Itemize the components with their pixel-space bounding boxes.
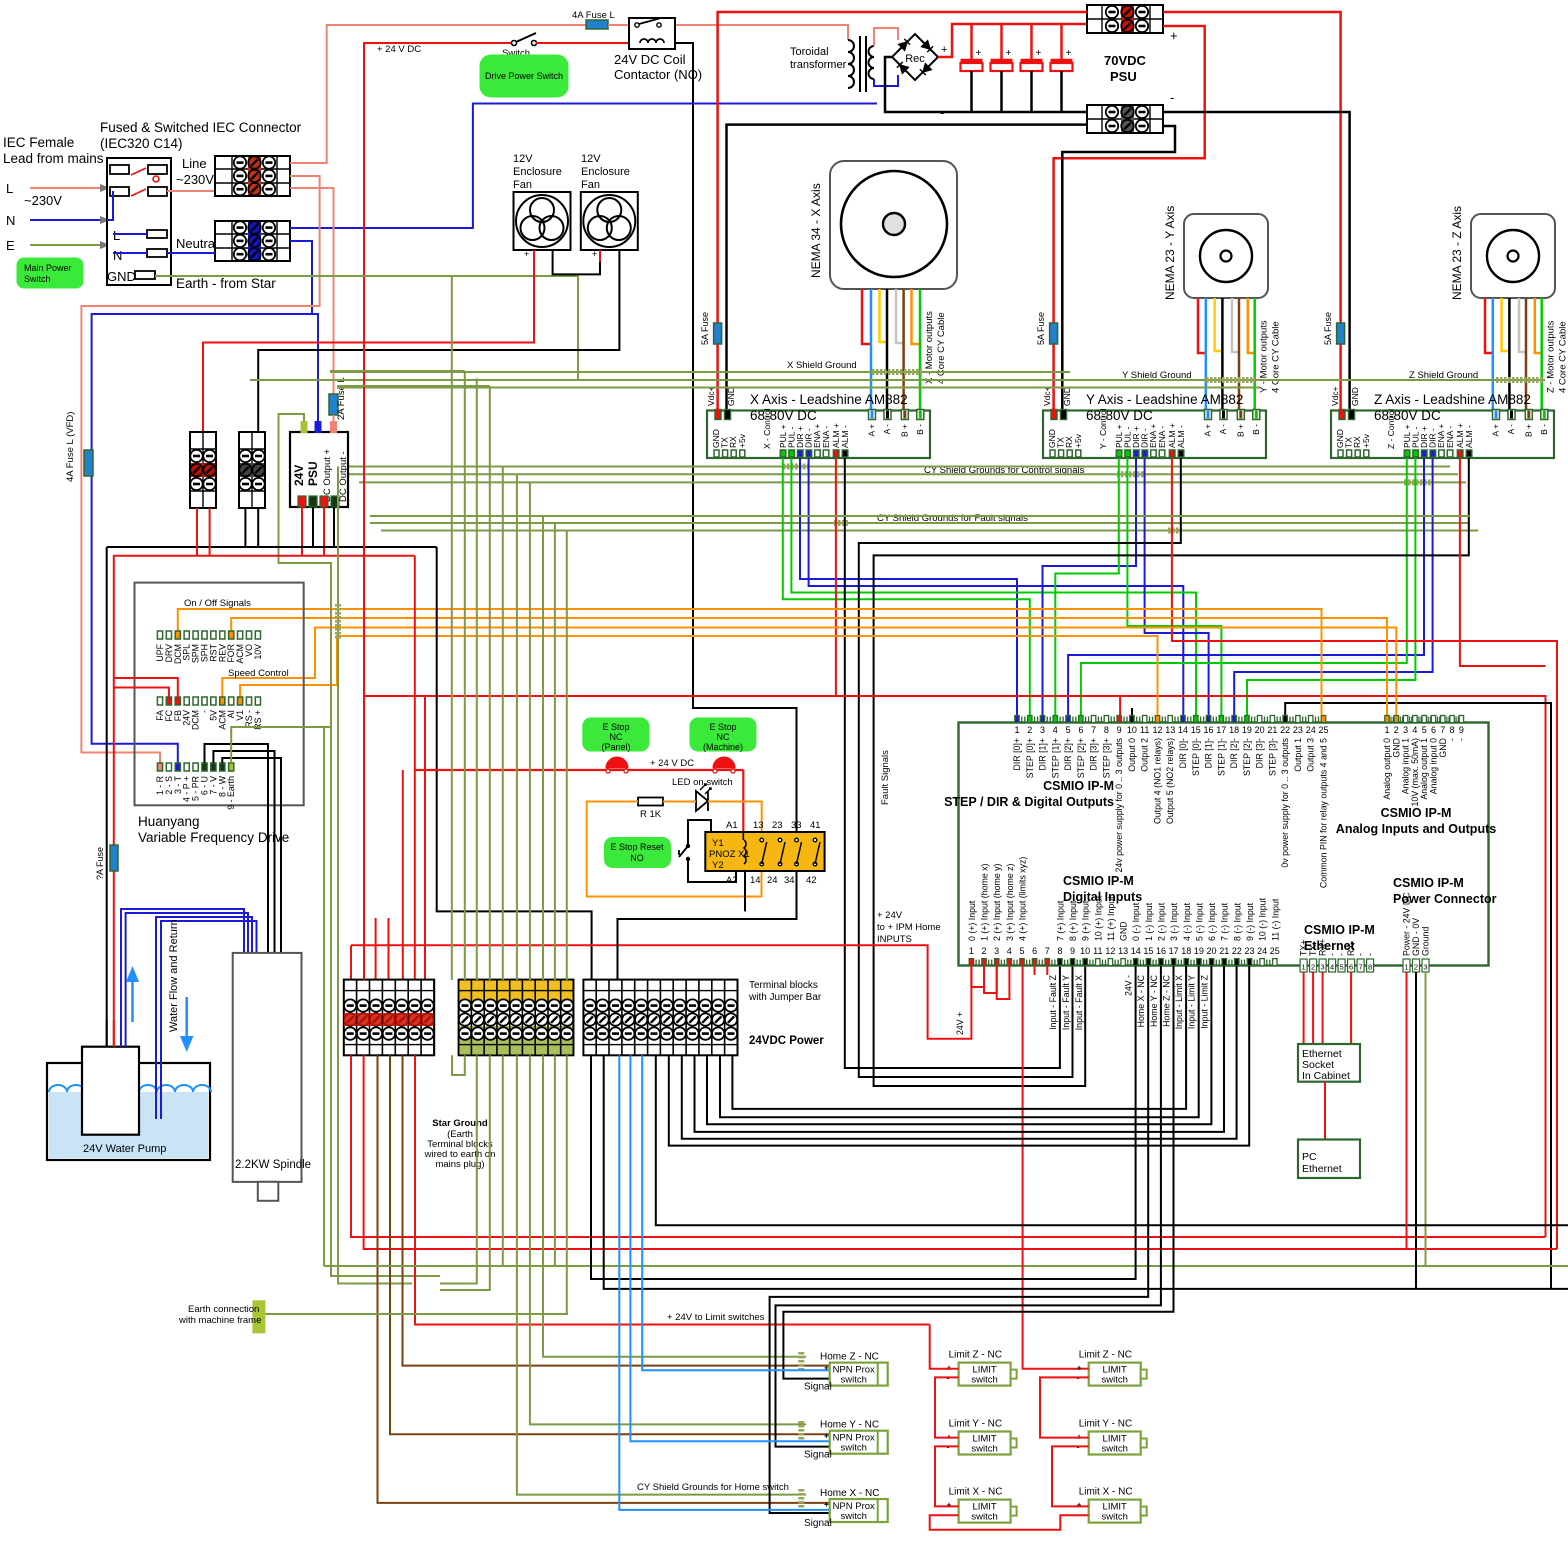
svg-text:Limit Z - NC: Limit Z - NC: [1079, 1350, 1132, 1361]
svg-text:GND: GND: [1350, 387, 1360, 406]
wire fan red drop into block1: [202, 431, 204, 433]
limit switch Z: [1089, 1363, 1147, 1386]
fuse 5A X: [716, 322, 719, 410]
wire Y ALM+ red: [1172, 458, 1557, 1249]
svg-text:~230V: ~230V: [24, 193, 62, 208]
svg-text:Output 1: Output 1: [1293, 738, 1303, 772]
wire olive cy control 3: [359, 481, 1466, 483]
CSMIO ethernet pins: [1300, 959, 1307, 972]
svg-text:+ 24V: + 24V: [877, 910, 903, 921]
svg-text:12: 12: [1152, 725, 1162, 735]
svg-text:22: 22: [1280, 725, 1290, 735]
svg-text:Y1: Y1: [712, 838, 724, 849]
wire pin15 homeX signal: [770, 966, 1149, 1513]
svg-text:23: 23: [1293, 725, 1303, 735]
svg-text:B -: B -: [915, 424, 925, 435]
home switch X NPN prox: [830, 1499, 888, 1522]
svg-text:Limit X - NC: Limit X - NC: [949, 1487, 1003, 1498]
svg-text:24V +: 24V +: [955, 1012, 965, 1035]
VFD row2 pins: [157, 697, 162, 705]
svg-text:5 (-) Input: 5 (-) Input: [1194, 902, 1204, 941]
svg-text:21: 21: [1219, 946, 1229, 956]
svg-text:6: 6: [1032, 946, 1037, 956]
wire olive cy control 1: [337, 466, 1450, 468]
svg-text:2A Fuse L: 2A Fuse L: [336, 377, 347, 420]
svg-text:1 (-) Input: 1 (-) Input: [1144, 902, 1154, 941]
svg-text:Z - Control: Z - Control: [1386, 409, 1396, 449]
drive Y axis Leadshine AM882: [1043, 410, 1266, 459]
svg-text:Speed Control: Speed Control: [228, 668, 289, 679]
svg-text:-: -: [1365, 953, 1375, 956]
svg-text:24v power supply for 0 .. 3 ou: 24v power supply for 0 .. 3 outputs: [1114, 737, 1124, 872]
svg-text:22: 22: [1232, 946, 1242, 956]
wire orange V1 to pin12: [240, 636, 1157, 715]
resistor R 1K: [638, 798, 663, 806]
wire motor brown B+: [1525, 298, 1528, 410]
svg-text:ENA -: ENA -: [1445, 426, 1455, 448]
svg-text:10: 10: [1080, 946, 1090, 956]
svg-text:Water Flow and Return: Water Flow and Return: [168, 919, 180, 1032]
braid home Z: [798, 1352, 804, 1372]
wire motor blue A+: [1205, 298, 1208, 410]
svg-text:34: 34: [784, 875, 795, 886]
wire olive cy control 2: [348, 473, 1458, 475]
wire minus row2 to Y gnd: [1062, 126, 1175, 410]
svg-text:11 (+) Input: 11 (+) Input: [1106, 896, 1116, 941]
svg-text:4: 4: [1053, 725, 1058, 735]
braid X shield: [872, 369, 922, 375]
svg-text:2: 2: [1027, 725, 1032, 735]
svg-text:24VDC Power: 24VDC Power: [749, 1035, 824, 1047]
wire olive stub star: [554, 1055, 556, 1266]
svg-text:CSMIO IP-M: CSMIO IP-M: [1304, 923, 1375, 937]
wire transformer secondary top to rec: [874, 28, 898, 46]
svg-text:-: -: [1337, 953, 1347, 956]
wire orange ACM to analog2: [222, 628, 1396, 716]
wire olive to homeX: [517, 1055, 806, 1494]
psu top stubs: [301, 421, 308, 433]
wire orange FOR to analog1: [231, 618, 1387, 715]
svg-text:STEP [2]-: STEP [2]-: [1242, 738, 1252, 776]
terminal block left pair: [190, 432, 216, 508]
svg-text:2 (+) Input (home y): 2 (+) Input (home y): [992, 863, 1002, 941]
capacitor C3: [1030, 24, 1033, 59]
svg-text:25: 25: [1318, 725, 1328, 735]
svg-text:4A Fuse L (VFD): 4A Fuse L (VFD): [65, 412, 76, 482]
terminal block right pair: [239, 432, 265, 508]
wire motor yellow A-: [1502, 298, 1510, 351]
svg-text:4: 4: [1007, 946, 1012, 956]
svg-text:12V: 12V: [513, 153, 533, 165]
svg-text:STEP [1]-: STEP [1]-: [1216, 738, 1226, 776]
svg-text:NEMA 23 - Z Axis: NEMA 23 - Z Axis: [1450, 206, 1464, 300]
svg-text:3: 3: [1423, 963, 1427, 972]
svg-text:2: 2: [982, 946, 987, 956]
svg-text:9 (+) Input: 9 (+) Input: [1081, 900, 1091, 941]
wire psu red rail: [114, 555, 415, 557]
braid vfd signals: [335, 604, 341, 640]
svg-text:8: 8: [1057, 946, 1062, 956]
svg-text:DIR [0]-: DIR [0]-: [1178, 738, 1188, 768]
svg-text:E: E: [6, 238, 15, 253]
svg-text:15: 15: [1191, 725, 1201, 735]
svg-text:+5v: +5v: [1361, 433, 1371, 448]
svg-text:3: 3: [1040, 725, 1045, 735]
wire pin20: [707, 966, 1211, 1124]
wire 24V estop rail: [415, 769, 744, 771]
estop button panel: [606, 757, 628, 768]
svg-text:INPUTS: INPUTS: [877, 934, 912, 945]
svg-text:33: 33: [791, 820, 802, 831]
wire block3 blues to home: [619, 1055, 829, 1510]
svg-text:4 Core CY Cable: 4 Core CY Cable: [936, 312, 947, 384]
wire VFD earth olive: [231, 727, 331, 763]
wire orange led loop: [587, 802, 762, 897]
svg-text:1: 1: [1014, 725, 1019, 735]
drive Z axis Leadshine AM882: [1331, 410, 1554, 459]
svg-text:L: L: [113, 228, 120, 243]
spindle 2.2KW: [233, 953, 302, 1182]
wire olive to power pin3: [1425, 972, 1427, 1266]
svg-text:8 (+) Input: 8 (+) Input: [1068, 900, 1078, 941]
svg-text:6: 6: [1078, 725, 1083, 735]
wire motor red A+: [1485, 298, 1493, 353]
svg-text:ALM -: ALM -: [1464, 425, 1474, 448]
wire block1 brown Y: [390, 1055, 829, 1434]
svg-text:DIR [1]-: DIR [1]-: [1204, 738, 1214, 768]
svg-text:8: 8: [1450, 725, 1455, 735]
svg-text:Z Axis - Leadshine AM882: Z Axis - Leadshine AM882: [1374, 392, 1531, 407]
svg-text:68-80V DC: 68-80V DC: [1374, 408, 1441, 423]
svg-text:Main Power: Main Power: [24, 263, 72, 273]
drive power switch label: [480, 55, 568, 97]
svg-text:+: +: [1170, 28, 1178, 43]
CSMIO input pin row: [969, 959, 973, 966]
wire limit col2 daisy Z-Y: [1040, 1377, 1089, 1437]
coil symbol: [744, 840, 746, 864]
svg-text:N: N: [6, 213, 15, 228]
braid Z shield: [1496, 377, 1543, 383]
svg-text:Contactor (NO): Contactor (NO): [614, 67, 702, 82]
svg-text:11 (-) Input: 11 (-) Input: [1270, 898, 1280, 941]
svg-text:0 (+) Input: 0 (+) Input: [967, 900, 977, 941]
svg-text:Home Z - NC: Home Z - NC: [1162, 974, 1172, 1026]
svg-text:~230V: ~230V: [176, 172, 214, 187]
svg-text:2 (-) Input: 2 (-) Input: [1157, 902, 1167, 941]
svg-text:TX+: TX+: [1299, 940, 1309, 956]
capacitor C1: [970, 24, 973, 59]
svg-text:10V: 10V: [253, 644, 263, 660]
svg-text:+: +: [592, 249, 597, 259]
svg-text:Power - 24V DC: Power - 24V DC: [1402, 892, 1412, 956]
svg-text:4 (-) Input: 4 (-) Input: [1182, 902, 1192, 941]
svg-text:PSU: PSU: [306, 461, 320, 486]
svg-text:13: 13: [1118, 946, 1128, 956]
wire earth olive down: [323, 727, 325, 1266]
wire rec plus bus red: [938, 24, 1087, 57]
svg-text:Fan: Fan: [581, 179, 600, 191]
svg-text:11: 11: [1093, 946, 1102, 956]
svg-text:Input - Fault X: Input - Fault X: [1074, 975, 1084, 1030]
svg-text:DIR [1]+: DIR [1]+: [1038, 738, 1048, 771]
wire Y DIR- to pin16: [1145, 458, 1209, 715]
svg-text:A -: A -: [882, 424, 892, 435]
svg-text:A +: A +: [1203, 424, 1213, 437]
svg-text:N: N: [113, 248, 122, 263]
svg-text:A -: A -: [1218, 424, 1228, 435]
wire 2A fuse to psu: [333, 415, 335, 432]
wire Z ALM- fault X to pin10: [874, 458, 1469, 1086]
wire olive to homeZ: [543, 1055, 806, 1356]
wire olive cy left end: [338, 467, 412, 1284]
svg-text:Vdc+: Vdc+: [1042, 386, 1052, 406]
svg-text:12V: 12V: [581, 153, 601, 165]
svg-text:Lead from mains: Lead from mains: [3, 151, 104, 166]
svg-text:E Stop Reset: E Stop Reset: [610, 842, 664, 852]
wire estop feed red: [414, 556, 416, 980]
svg-text:3: 3: [1403, 725, 1408, 735]
svg-text:NC: NC: [717, 732, 730, 742]
svg-text:Input - Limit X: Input - Limit X: [1174, 975, 1184, 1029]
svg-text:4 Core CY Cable: 4 Core CY Cable: [1271, 321, 1282, 393]
svg-text:4: 4: [1330, 963, 1334, 972]
wire olive fault1 down: [542, 516, 544, 980]
svg-text:21: 21: [1267, 725, 1277, 735]
svg-text:Terminal blocks: Terminal blocks: [749, 980, 818, 991]
svg-text:5: 5: [1066, 725, 1071, 735]
wire limit col2 plus Z: [1084, 1368, 1089, 1370]
svg-text:+ 24 V DC: + 24 V DC: [650, 758, 694, 769]
wire pin18 limit staircase: [732, 966, 1186, 1109]
water pipe out: [121, 909, 244, 1047]
svg-text:19: 19: [1242, 725, 1252, 735]
svg-text:DIR [3]+: DIR [3]+: [1089, 738, 1099, 771]
svg-text:Home Y - NC: Home Y - NC: [820, 1420, 879, 1431]
svg-text:9: 9: [1070, 946, 1075, 956]
wire limit col1 daisy Z-Y: [935, 1377, 959, 1437]
water pipe return: [156, 917, 252, 1119]
wire block3 long black 1225: [656, 1055, 1568, 1225]
svg-text:68-80V DC: 68-80V DC: [750, 408, 817, 423]
svg-text:18: 18: [1229, 725, 1239, 735]
wire reset loop black: [688, 820, 711, 846]
svg-text:NC: NC: [610, 732, 623, 742]
svg-text:5A Fuse: 5A Fuse: [700, 312, 710, 345]
wire socket to pc red: [1324, 1082, 1326, 1140]
svg-text:DIR [3]-: DIR [3]-: [1255, 738, 1265, 768]
wire limit col1 to col2 bottom: [930, 1515, 1089, 1530]
svg-text:1: 1: [1384, 725, 1389, 735]
svg-text:2.2KW Spindle: 2.2KW Spindle: [235, 1159, 311, 1171]
svg-text:4 Core CY Cable: 4 Core CY Cable: [1558, 321, 1568, 393]
svg-text:7: 7: [1045, 946, 1050, 956]
svg-text:CY Shield Grounds for Home swi: CY Shield Grounds for Home switch: [637, 1482, 789, 1493]
svg-text:Drive Power Switch: Drive Power Switch: [485, 71, 563, 81]
VFD row3 pins: [157, 763, 162, 771]
svg-text:STEP [0]-: STEP [0]-: [1191, 738, 1201, 776]
svg-text:On / Off Signals: On / Off Signals: [184, 598, 251, 609]
wire motor black A-: [1221, 298, 1224, 410]
wire motor green B-: [919, 289, 922, 410]
svg-text:9: 9: [1459, 725, 1464, 735]
svg-text:Variable Frequency Drive: Variable Frequency Drive: [138, 830, 289, 845]
svg-text:+: +: [824, 1432, 829, 1441]
wire motor blue A+: [870, 289, 873, 410]
wire pump black: [106, 1020, 108, 1047]
svg-text:1 (+) Input (home x): 1 (+) Input (home x): [980, 863, 990, 941]
svg-text:DIR [2]+: DIR [2]+: [1063, 738, 1073, 771]
wire olive earth star vertical: [155, 276, 452, 980]
main power switch label: [17, 258, 83, 288]
LED diode: [696, 791, 708, 811]
wire Y DIR+ to pin3: [1043, 458, 1137, 715]
red screws row block1: [344, 1013, 356, 1026]
wire motor green B-: [1253, 298, 1256, 410]
svg-text:X - Motor outputs: X - Motor outputs: [924, 311, 935, 384]
svg-text:CSMIO IP-M: CSMIO IP-M: [1381, 806, 1452, 820]
wire switch to contactor coil: [536, 42, 629, 44]
wire black rail to star block: [437, 547, 592, 980]
svg-text:15: 15: [1143, 946, 1153, 956]
svg-text:Star Ground: Star Ground: [432, 1118, 488, 1129]
svg-text:2: 2: [1394, 725, 1399, 735]
ethernet socket box: [1298, 1044, 1360, 1082]
wire pin10 stub: [1131, 708, 1133, 715]
wire pin21: [695, 966, 1225, 1132]
svg-text:4: 4: [1412, 725, 1417, 735]
svg-text:L: L: [6, 181, 13, 196]
svg-text:24V: 24V: [292, 465, 306, 486]
svg-text:Enclosure: Enclosure: [513, 166, 562, 178]
limit switch X: [959, 1500, 1017, 1523]
wire fan1 red: [203, 250, 534, 432]
fuse 5A Y: [1052, 322, 1055, 410]
CSMIO IP-M controller box: [959, 723, 1489, 966]
braid home X: [798, 1489, 804, 1509]
svg-text:24V Water Pump: 24V Water Pump: [83, 1143, 166, 1155]
svg-text:12: 12: [1105, 946, 1115, 956]
wire salmon line from block to 4A fuse: [290, 25, 586, 163]
limit switch X: [1089, 1500, 1147, 1523]
svg-text:IEC Female: IEC Female: [3, 135, 74, 150]
wire block3 long black right: [604, 1055, 1568, 1289]
svg-text:Huanyang: Huanyang: [138, 814, 200, 829]
svg-text:7 (-) Input: 7 (-) Input: [1220, 902, 1230, 941]
svg-text:STEP [2]+: STEP [2]+: [1076, 738, 1086, 778]
svg-text:B +: B +: [1523, 424, 1533, 437]
wire blue to 24vpsu: [312, 314, 318, 432]
wire olive cy fault 1: [370, 522, 1470, 524]
24V PSU box: [290, 432, 348, 507]
svg-text:RX+: RX+: [1318, 939, 1328, 956]
svg-text:with Jumper Bar: with Jumper Bar: [748, 992, 822, 1003]
svg-text:Output 3: Output 3: [1306, 738, 1316, 772]
wire motor brown B+: [1238, 298, 1241, 410]
svg-text:GND: GND: [107, 269, 136, 284]
svg-text:Output 4 (NO1 relays): Output 4 (NO1 relays): [1152, 738, 1162, 824]
wire minus left to X drive gnd: [727, 125, 1088, 410]
svg-text:19: 19: [1194, 946, 1204, 956]
wire VFD UVW blacks: [205, 744, 269, 952]
svg-text:PNOZ X1: PNOZ X1: [709, 849, 750, 860]
svg-text:23: 23: [772, 820, 783, 831]
svg-text:DC Output -: DC Output -: [338, 451, 349, 502]
svg-text:5A Fuse: 5A Fuse: [1323, 312, 1333, 345]
wire olive fault3 down: [566, 531, 568, 980]
wire transformer secondary bottom blue: [874, 75, 898, 86]
wire motor orange B-: [912, 289, 921, 344]
drive X axis Leadshine AM882: [707, 410, 930, 459]
svg-text:NEMA 34 - X Axis: NEMA 34 - X Axis: [809, 183, 823, 278]
svg-text:5A Fuse: 5A Fuse: [1036, 312, 1046, 345]
wire motor brown B+: [902, 289, 905, 410]
CSMIO top pin row: [1015, 716, 1019, 723]
svg-text:10: 10: [1127, 725, 1137, 735]
home switch Z NPN prox: [830, 1363, 888, 1386]
svg-text:ALM -: ALM -: [840, 425, 850, 448]
svg-text:+: +: [824, 1500, 829, 1509]
wire olive stubs below star block: [440, 1055, 477, 1283]
wire pin22: [682, 966, 1237, 1139]
terminal block 24vdc: [583, 980, 737, 1056]
motor NEMA 23 Z axis: [1471, 214, 1555, 298]
svg-text:3 (+) Input (home z): 3 (+) Input (home z): [1005, 863, 1015, 941]
wire E lead: [30, 244, 100, 246]
svg-text:23: 23: [1244, 946, 1254, 956]
fuse 5A Z: [1339, 322, 1342, 410]
svg-text:25: 25: [1270, 946, 1280, 956]
wire motor white B+: [896, 289, 904, 343]
wire Z DIR- to pin18: [1234, 458, 1432, 715]
svg-text:A +: A +: [867, 424, 877, 437]
svg-text:Switch: Switch: [24, 274, 51, 284]
wire X PUL+ to pin2: [783, 458, 1030, 715]
svg-text:Limit Y - NC: Limit Y - NC: [949, 1419, 1003, 1430]
flow arrow down: [185, 997, 188, 1043]
PNOZ X1 relay: [705, 832, 824, 871]
svg-text:13: 13: [1165, 725, 1175, 735]
wire motor orange B-: [1248, 298, 1255, 353]
svg-text:RX-: RX-: [1346, 941, 1356, 956]
svg-text:10 (+) Input: 10 (+) Input: [1093, 895, 1103, 941]
svg-text:Y - Control: Y - Control: [1098, 408, 1108, 449]
svg-text:STEP / DIR & Digital Outputs: STEP / DIR & Digital Outputs: [944, 795, 1114, 809]
svg-text:+: +: [1066, 48, 1072, 59]
svg-text:Y - Motor outputs: Y - Motor outputs: [1259, 320, 1270, 393]
wire limit col1 daisy Y-X: [935, 1446, 959, 1506]
svg-text:5: 5: [1019, 946, 1024, 956]
wire motor white B+: [1519, 298, 1526, 352]
svg-text:STEP [0]+: STEP [0]+: [1025, 738, 1035, 778]
wire Y PUL+ to pin4: [1055, 458, 1119, 715]
wire Z PUL+ to pin6: [1081, 458, 1407, 715]
svg-text:Input - Fault Y: Input - Fault Y: [1061, 975, 1071, 1030]
CSMIO power pins: [1403, 959, 1410, 972]
svg-text:6 (-) Input: 6 (-) Input: [1207, 902, 1217, 941]
wire red to A1: [742, 770, 744, 833]
svg-text:Vdc+: Vdc+: [706, 386, 716, 406]
svg-text:B +: B +: [1235, 424, 1245, 437]
svg-text:3: 3: [994, 946, 999, 956]
svg-text:+: +: [824, 1364, 829, 1373]
wire salmon row3 to 2A fuse: [290, 188, 334, 394]
wire pin23: [669, 966, 1249, 1146]
earth connection block: [252, 1300, 265, 1333]
wire block1 red down 2: [364, 1055, 1557, 1249]
wire rec minus bus black: [885, 57, 1087, 112]
svg-text:14: 14: [750, 875, 761, 886]
wire olive to homeY: [530, 1055, 806, 1424]
